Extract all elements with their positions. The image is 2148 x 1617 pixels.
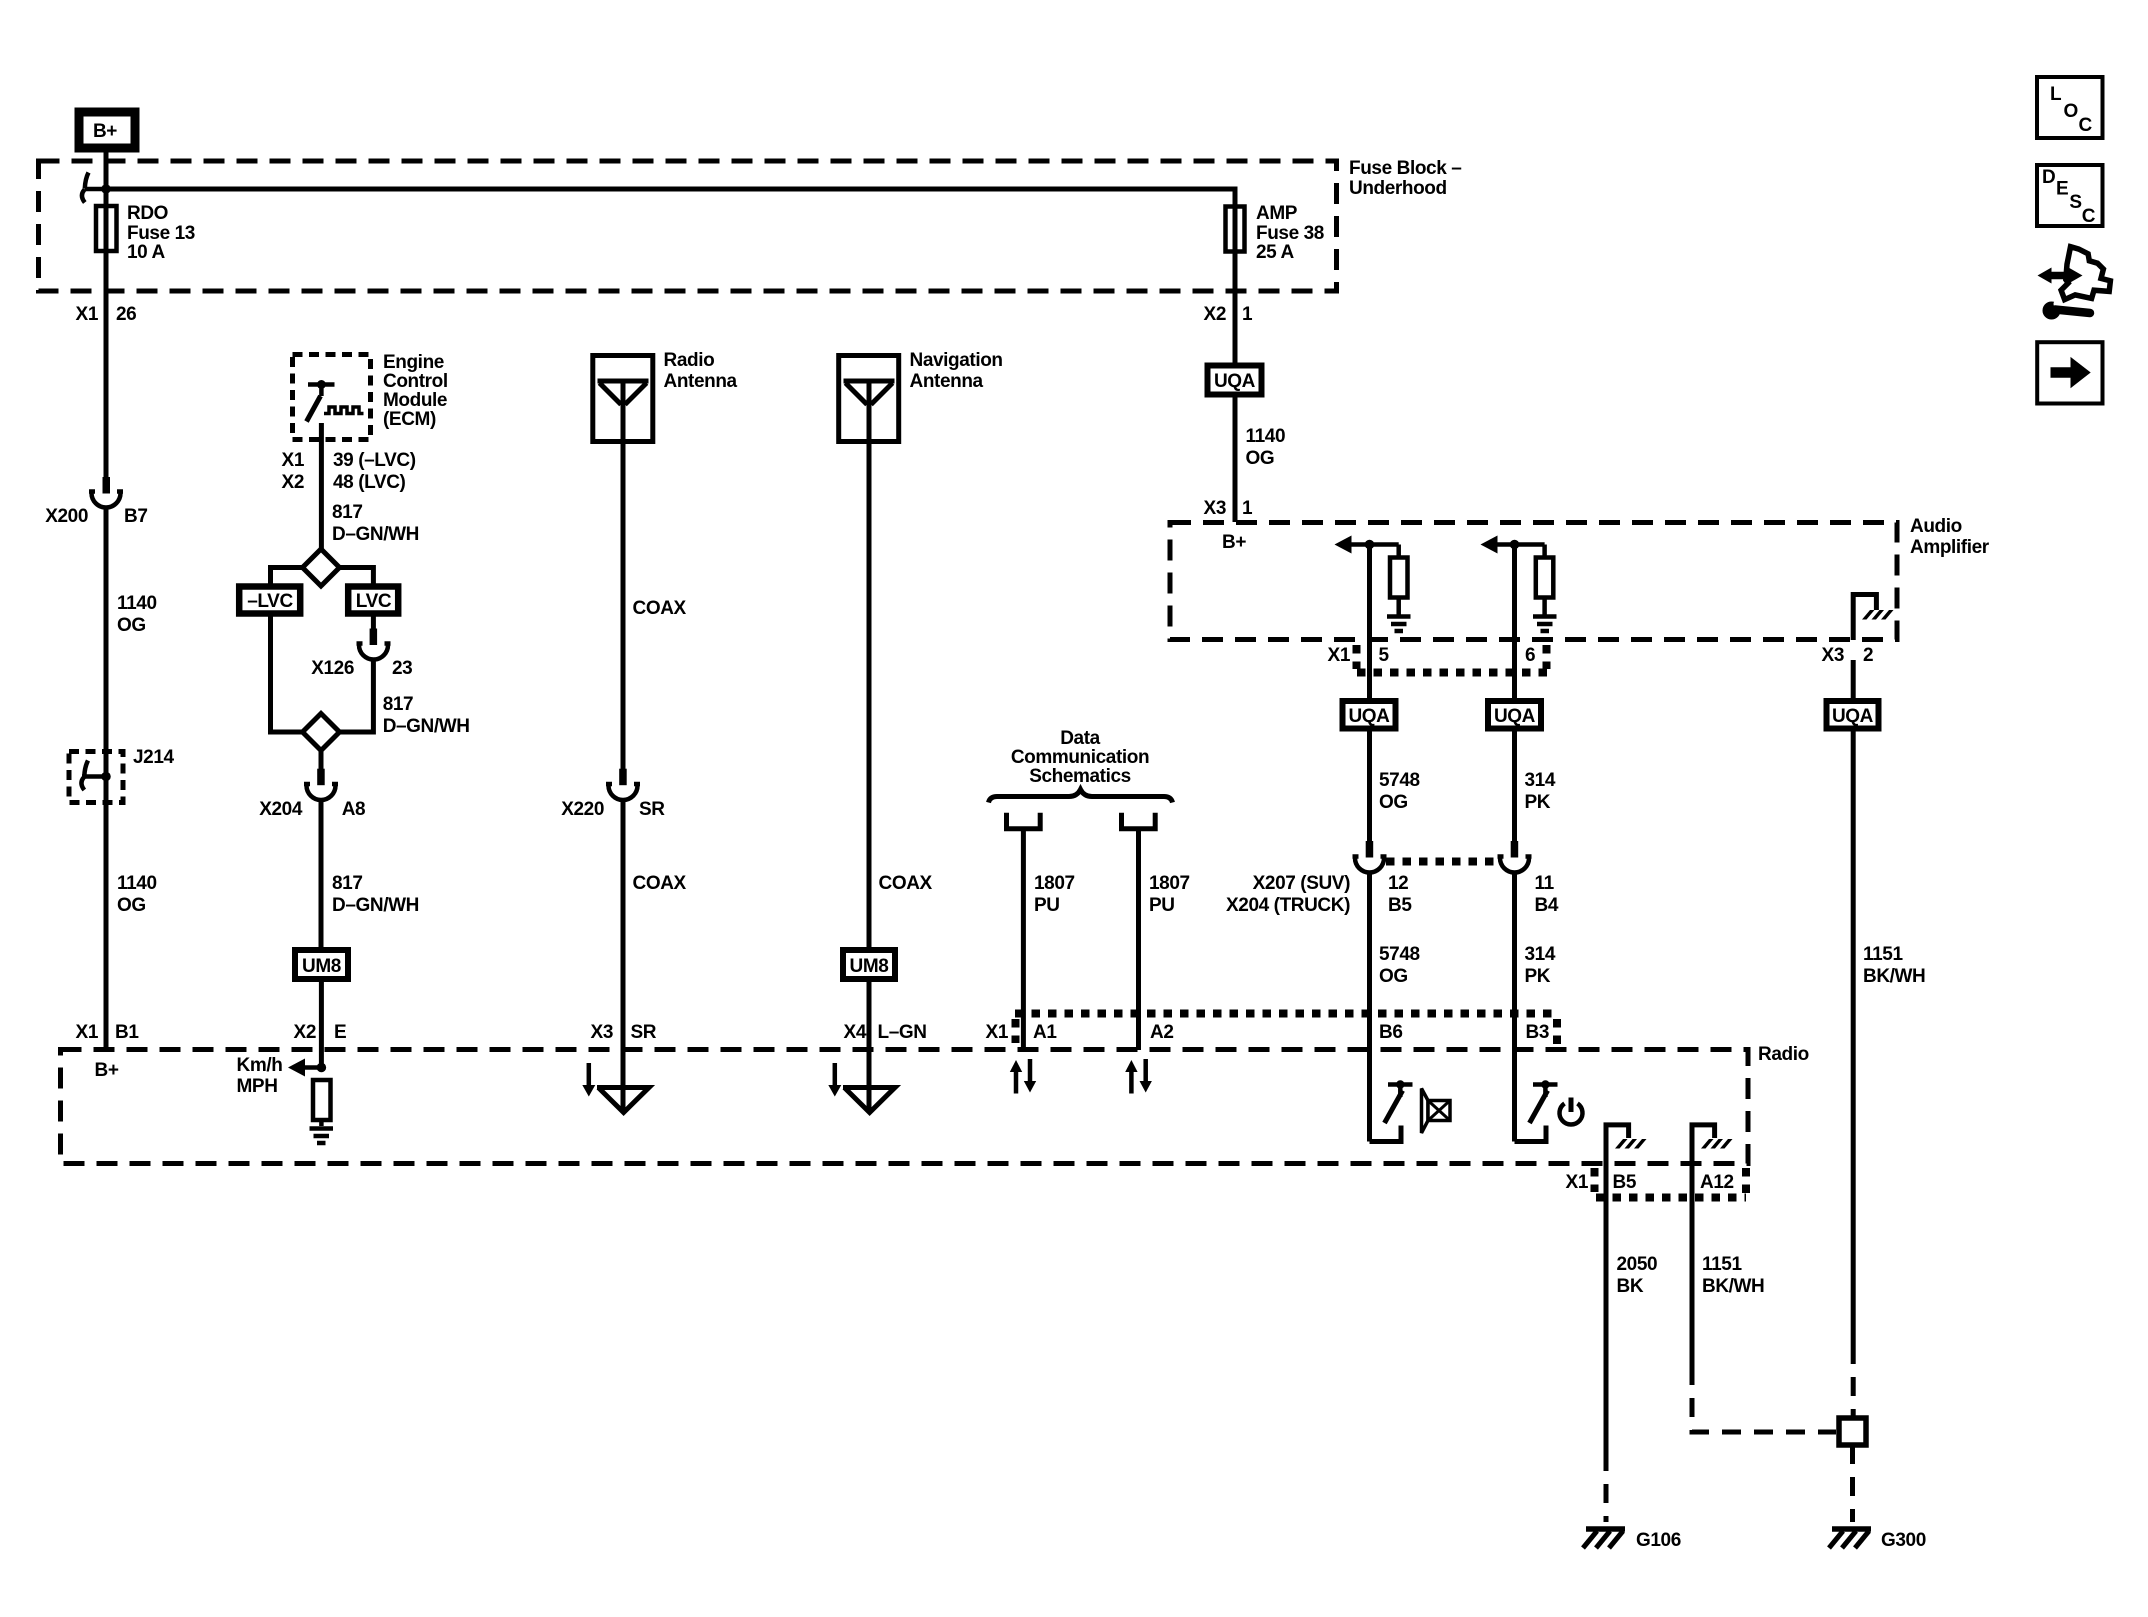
svg-text:X3: X3 bbox=[591, 1022, 613, 1043]
wire X126 to lower diamond bbox=[339, 660, 373, 733]
icon vehicle with arrow and wrench bbox=[2038, 247, 2111, 320]
svg-text:11: 11 bbox=[1535, 873, 1555, 894]
label Fuse Block - Underhood bbox=[1349, 158, 1461, 199]
amp output wire pin 6 down bbox=[1512, 545, 1517, 700]
svg-text:Schematics: Schematics bbox=[1029, 766, 1131, 787]
svg-text:1140: 1140 bbox=[1246, 426, 1286, 447]
wire UQA down to splice pack bbox=[1851, 732, 1856, 1420]
svg-text:O: O bbox=[2064, 101, 2078, 122]
svg-text:1807: 1807 bbox=[1149, 873, 1190, 894]
svg-text:L: L bbox=[2050, 84, 2062, 105]
label Navigation Antenna bbox=[910, 350, 1003, 392]
wire label 1807 PU (A2) bbox=[1149, 873, 1190, 916]
svg-text:J214: J214 bbox=[133, 747, 175, 768]
data link connector A2 (off-page) bbox=[1122, 813, 1156, 829]
option box -LVC bbox=[239, 587, 300, 614]
svg-text:Km/h: Km/h bbox=[237, 1055, 283, 1076]
svg-text:X1: X1 bbox=[76, 304, 99, 325]
ECM internal driver switch bbox=[307, 380, 364, 422]
svg-text:Fuse 13: Fuse 13 bbox=[127, 223, 195, 244]
icon box arrow (next page) bbox=[2037, 342, 2102, 403]
wire X2-1 fuse to UQA bbox=[1233, 250, 1238, 364]
label X126 23 bbox=[311, 658, 412, 679]
pin label X2 1 (fuse block output right) bbox=[1204, 304, 1253, 325]
radio mute switch (B6) bbox=[1370, 1080, 1413, 1141]
svg-text:UM8: UM8 bbox=[850, 956, 889, 977]
wire -LVC to lower diamond bbox=[271, 616, 304, 732]
svg-text:X200: X200 bbox=[45, 506, 88, 527]
connector X207/X204 (left pin 12) bbox=[1353, 841, 1387, 873]
svg-text:D: D bbox=[2042, 167, 2055, 188]
svg-text:1: 1 bbox=[1242, 498, 1253, 519]
splice pack junction block bbox=[1839, 1418, 1866, 1445]
splice diamond lower bbox=[303, 714, 340, 751]
wire resistor to ground left bbox=[1396, 598, 1401, 616]
wire label 817 D-GN/WH (below ECM) bbox=[332, 502, 419, 545]
option box UM8 (ECM branch) bbox=[295, 950, 348, 979]
speaker icon bbox=[1422, 1089, 1451, 1134]
arrow antenna signal (nav ant) bbox=[828, 1063, 841, 1097]
wire diamond to -LVC box bbox=[271, 568, 304, 585]
arrow vehicle speed output (left) bbox=[288, 1059, 326, 1077]
wire label 2050 BK bbox=[1617, 1254, 1658, 1297]
data arrows (A2) bbox=[1125, 1059, 1152, 1094]
splice diamond upper bbox=[303, 549, 340, 586]
option box UQA (speaker plus) bbox=[1488, 701, 1541, 729]
option box UQA (amp ground) bbox=[1827, 701, 1879, 729]
coax wire radio antenna to X220 bbox=[621, 444, 626, 769]
pin label X3 1 (amp) bbox=[1204, 498, 1253, 519]
svg-text:X207 (SUV): X207 (SUV) bbox=[1253, 873, 1350, 894]
svg-text:X1: X1 bbox=[282, 450, 305, 471]
junction node at bus bbox=[101, 184, 111, 194]
svg-text:B+: B+ bbox=[93, 121, 117, 142]
svg-text:1151: 1151 bbox=[1702, 1254, 1742, 1275]
radio bottom connector X1 dotted boundary bbox=[1595, 1168, 1747, 1198]
ground (radio internal) bbox=[310, 1129, 334, 1144]
wire label 817 D-GN/WH (above lower diamond) bbox=[383, 694, 470, 737]
splice arc at fuse block entry bbox=[82, 173, 106, 203]
svg-text:BK: BK bbox=[1617, 1276, 1644, 1297]
svg-text:E: E bbox=[334, 1022, 346, 1043]
connector X207/X204 (right pin 11) bbox=[1498, 841, 1532, 873]
svg-text:Antenna: Antenna bbox=[664, 371, 738, 392]
option box UM8 (nav branch) bbox=[843, 950, 895, 979]
svg-text:PK: PK bbox=[1525, 792, 1551, 813]
pin label 12 B5 bbox=[1388, 873, 1412, 916]
svg-text:6: 6 bbox=[1525, 645, 1535, 666]
wire X200 to J214 bbox=[104, 508, 109, 777]
svg-text:OG: OG bbox=[1246, 448, 1275, 469]
svg-text:D–GN/WH: D–GN/WH bbox=[332, 524, 419, 545]
wire label 1140 OG (lower left) bbox=[117, 873, 157, 916]
svg-text:Radio: Radio bbox=[664, 350, 715, 371]
svg-text:A1: A1 bbox=[1033, 1022, 1057, 1043]
svg-text:817: 817 bbox=[332, 502, 363, 523]
svg-text:PU: PU bbox=[1149, 895, 1175, 916]
wire resistor to ground right bbox=[1542, 598, 1547, 616]
wire B5 to G106 bbox=[1604, 1163, 1609, 1522]
svg-text:A12: A12 bbox=[1700, 1172, 1734, 1193]
svg-text:X2: X2 bbox=[282, 472, 304, 493]
connector X220 bbox=[606, 769, 640, 800]
wire X207 to radio pin B6 bbox=[1367, 873, 1372, 1142]
wire label 817 D-GN/WH (above UM8) bbox=[332, 873, 419, 916]
ground G300 bbox=[1829, 1529, 1871, 1548]
svg-text:G106: G106 bbox=[1636, 1530, 1681, 1551]
wire label 5748 OG (upper) bbox=[1379, 770, 1420, 813]
pin label 11 B4 bbox=[1535, 873, 1559, 916]
svg-text:2050: 2050 bbox=[1617, 1254, 1658, 1275]
svg-text:12: 12 bbox=[1388, 873, 1408, 894]
brace under data communication label bbox=[989, 790, 1173, 803]
data arrows (A1) bbox=[1010, 1059, 1036, 1094]
svg-text:1: 1 bbox=[1242, 304, 1253, 325]
svg-text:C: C bbox=[2082, 206, 2096, 227]
pin label X1 B5 A12 (radio bottom) bbox=[1566, 1172, 1734, 1193]
arrow antenna signal (radio ant) bbox=[582, 1063, 595, 1097]
radio antenna box bbox=[593, 356, 653, 445]
amp output wire pin 5 down bbox=[1367, 545, 1372, 700]
wire label 5748 OG (lower) bbox=[1379, 944, 1420, 987]
svg-text:OG: OG bbox=[117, 895, 146, 916]
svg-text:B1: B1 bbox=[115, 1022, 139, 1043]
fuse RDO Fuse 13 10A bbox=[96, 206, 117, 251]
wire amp X3-2 to UQA bbox=[1851, 660, 1856, 699]
svg-text:Radio: Radio bbox=[1758, 1044, 1809, 1065]
svg-text:X3: X3 bbox=[1822, 645, 1844, 666]
svg-text:26: 26 bbox=[116, 304, 136, 325]
wire ECM output down bbox=[319, 423, 324, 549]
wire data link A2 to radio bbox=[1136, 829, 1141, 1050]
svg-text:X4: X4 bbox=[844, 1022, 867, 1043]
pin label X1 5 (amp) bbox=[1328, 645, 1390, 666]
splice J214 bbox=[69, 752, 123, 803]
pin label X1 B1 (radio) bbox=[76, 1022, 140, 1043]
svg-text:AMP: AMP bbox=[1256, 203, 1298, 224]
svg-text:B5: B5 bbox=[1613, 1172, 1637, 1193]
amp internal load resistor right bbox=[1536, 558, 1554, 598]
svg-text:B4: B4 bbox=[1535, 895, 1559, 916]
svg-text:817: 817 bbox=[332, 873, 363, 894]
wire UQA to connector X207 (left) bbox=[1367, 732, 1372, 842]
option box UQA (speaker minus) bbox=[1343, 701, 1396, 729]
radio power switch (B3) bbox=[1515, 1080, 1558, 1141]
antenna sink symbol (nav ant) bbox=[843, 1088, 895, 1113]
pin label X3 2 (amp ground) bbox=[1822, 645, 1874, 666]
wire data link A1 to radio bbox=[1021, 829, 1026, 1050]
ground (amp internal left) bbox=[1387, 617, 1411, 632]
svg-text:B5: B5 bbox=[1388, 895, 1412, 916]
svg-text:X220: X220 bbox=[561, 799, 604, 820]
svg-text:PU: PU bbox=[1034, 895, 1060, 916]
svg-text:E: E bbox=[2056, 179, 2068, 200]
radio internal ground (B5) bbox=[1606, 1125, 1647, 1163]
svg-text:UQA: UQA bbox=[1348, 706, 1390, 727]
svg-text:B3: B3 bbox=[1526, 1022, 1550, 1043]
svg-text:314: 314 bbox=[1525, 770, 1556, 791]
label X204 A8 bbox=[259, 799, 365, 820]
svg-text:Data: Data bbox=[1060, 728, 1100, 749]
radio internal ground (A12) bbox=[1692, 1125, 1733, 1163]
wire label 1140 OG (upper left) bbox=[117, 593, 157, 636]
svg-text:–LVC: –LVC bbox=[247, 591, 293, 612]
svg-text:OG: OG bbox=[1379, 966, 1408, 987]
svg-text:LVC: LVC bbox=[356, 591, 392, 612]
svg-text:Fuse 38: Fuse 38 bbox=[1256, 223, 1324, 244]
wire diamond to LVC box bbox=[339, 568, 373, 585]
svg-text:A2: A2 bbox=[1150, 1022, 1174, 1043]
svg-text:B+: B+ bbox=[95, 1060, 119, 1081]
svg-text:L–GN: L–GN bbox=[878, 1022, 927, 1043]
svg-text:1140: 1140 bbox=[117, 593, 157, 614]
svg-text:COAX: COAX bbox=[633, 873, 687, 894]
wire label 314 PK (upper) bbox=[1525, 770, 1556, 813]
coax wire X220 to radio bbox=[621, 800, 626, 1113]
svg-text:OG: OG bbox=[1379, 792, 1408, 813]
wire LVC to connector X126 bbox=[371, 616, 376, 629]
svg-text:(ECM): (ECM) bbox=[383, 409, 436, 430]
svg-text:Audio: Audio bbox=[1910, 516, 1962, 537]
svg-text:BK/WH: BK/WH bbox=[1702, 1276, 1764, 1297]
svg-text:UQA: UQA bbox=[1214, 371, 1256, 392]
option box UQA (amp feed) bbox=[1208, 366, 1262, 395]
svg-text:1151: 1151 bbox=[1863, 944, 1903, 965]
connector X126 bbox=[357, 629, 391, 660]
svg-text:COAX: COAX bbox=[879, 873, 933, 894]
svg-text:UM8: UM8 bbox=[302, 956, 341, 977]
pin label X1 A1 (radio) bbox=[986, 1022, 1058, 1043]
svg-text:2: 2 bbox=[1863, 645, 1873, 666]
wire diamond to connector X204 bbox=[319, 751, 324, 770]
svg-text:39 (–LVC): 39 (–LVC) bbox=[333, 450, 416, 471]
amp connector X1 dotted boundary bbox=[1357, 645, 1549, 673]
label Radio Antenna bbox=[664, 350, 738, 392]
svg-text:X1: X1 bbox=[986, 1022, 1009, 1043]
label RDO Fuse 13 10 A bbox=[127, 203, 195, 263]
icon box LOC bbox=[2037, 77, 2103, 138]
svg-text:B7: B7 bbox=[124, 506, 148, 527]
wire UQA to connector X207 (right) bbox=[1512, 732, 1517, 842]
wire label 1807 PU (A1) bbox=[1034, 873, 1075, 916]
pin label X2 E (radio) bbox=[294, 1022, 347, 1043]
connector in-line dotted link bbox=[1386, 858, 1499, 866]
svg-text:X3: X3 bbox=[1204, 498, 1226, 519]
horizontal bus wire to AMP fuse bbox=[106, 189, 1235, 206]
svg-text:BK/WH: BK/WH bbox=[1863, 966, 1925, 987]
fuse AMP Fuse 38 25A bbox=[1226, 207, 1245, 252]
connector X200 bbox=[89, 477, 123, 508]
svg-text:Underhood: Underhood bbox=[1349, 178, 1447, 199]
label X207 (SUV) X204 (TRUCK) bbox=[1226, 873, 1350, 916]
engine control module (ECM) box bbox=[293, 355, 371, 440]
svg-text:Communication: Communication bbox=[1011, 747, 1149, 768]
svg-text:B6: B6 bbox=[1379, 1022, 1403, 1043]
coax wire navigation antenna to radio bbox=[867, 444, 872, 948]
svg-text:Fuse Block –: Fuse Block – bbox=[1349, 158, 1461, 179]
data link connector A1 (off-page) bbox=[1007, 813, 1041, 829]
audio amplifier box bbox=[1170, 523, 1897, 640]
radio internal resistor bbox=[313, 1080, 331, 1120]
wire label 1140 OG (amp feed) bbox=[1246, 426, 1286, 469]
svg-text:X1: X1 bbox=[1566, 1172, 1589, 1193]
svg-text:Antenna: Antenna bbox=[910, 371, 984, 392]
svg-text:10 A: 10 A bbox=[127, 242, 166, 263]
svg-text:X2: X2 bbox=[1204, 304, 1226, 325]
power terminal B+ bbox=[79, 112, 135, 148]
amp output branch right (pin 6) bbox=[1481, 536, 1545, 559]
label Data Communication Schematics bbox=[1011, 728, 1149, 787]
radio connector X1 dotted boundary bbox=[1015, 1014, 1557, 1047]
svg-text:X204 (TRUCK): X204 (TRUCK) bbox=[1226, 895, 1350, 916]
svg-text:48 (LVC): 48 (LVC) bbox=[333, 472, 406, 493]
svg-text:SR: SR bbox=[631, 1022, 657, 1043]
label Km/h MPH bbox=[237, 1055, 283, 1097]
svg-text:5748: 5748 bbox=[1379, 944, 1420, 965]
connector X204 bbox=[304, 769, 338, 800]
svg-text:COAX: COAX bbox=[633, 598, 687, 619]
wire B+ down to fuse RDO bbox=[104, 148, 109, 206]
label X200 B7 bbox=[45, 506, 147, 527]
svg-text:S: S bbox=[2069, 192, 2081, 213]
wire X207 to radio pin B3 bbox=[1512, 873, 1517, 1142]
svg-text:23: 23 bbox=[392, 658, 412, 679]
wire X204 to UM8 bbox=[319, 800, 324, 948]
wire UQA to amp pin B+ bbox=[1233, 397, 1238, 522]
svg-text:C: C bbox=[2079, 115, 2093, 136]
label X220 SR bbox=[561, 799, 665, 820]
ground (amp internal right) bbox=[1533, 617, 1557, 632]
svg-text:Control: Control bbox=[383, 371, 448, 392]
wire UM8 to radio pin E bbox=[319, 982, 324, 1068]
svg-text:D–GN/WH: D–GN/WH bbox=[383, 716, 470, 737]
power icon bbox=[1560, 1098, 1583, 1125]
ground G106 bbox=[1583, 1529, 1625, 1548]
pin label X4 L-GN (radio) bbox=[844, 1022, 927, 1043]
svg-text:SR: SR bbox=[639, 799, 665, 820]
antenna sink symbol (radio ant) bbox=[597, 1088, 649, 1113]
svg-text:5748: 5748 bbox=[1379, 770, 1420, 791]
amp internal ground branch (pin X3-2) bbox=[1853, 595, 1893, 641]
svg-text:UQA: UQA bbox=[1832, 706, 1874, 727]
svg-text:1140: 1140 bbox=[117, 873, 157, 894]
radio box bbox=[61, 1050, 1749, 1164]
wire label 1151 BK/WH (radio ground) bbox=[1702, 1254, 1764, 1297]
svg-text:Amplifier: Amplifier bbox=[1910, 537, 1990, 558]
svg-text:Navigation: Navigation bbox=[910, 350, 1003, 371]
amp internal load resistor left bbox=[1390, 558, 1408, 598]
svg-text:B+: B+ bbox=[1222, 532, 1246, 553]
svg-text:X1: X1 bbox=[76, 1022, 99, 1043]
svg-text:Engine: Engine bbox=[383, 352, 444, 373]
svg-text:OG: OG bbox=[117, 615, 146, 636]
svg-text:X1: X1 bbox=[1328, 645, 1351, 666]
fuse block - underhood box bbox=[39, 161, 1337, 291]
pin label X1 26 (fuse block output left) bbox=[76, 304, 137, 325]
svg-text:25 A: 25 A bbox=[1256, 242, 1295, 263]
svg-text:5: 5 bbox=[1379, 645, 1390, 666]
wire UM8 to radio pin L-GN bbox=[867, 982, 872, 1113]
amp output branch left (pin 5) bbox=[1335, 536, 1399, 559]
svg-text:X126: X126 bbox=[311, 658, 354, 679]
svg-text:RDO: RDO bbox=[127, 203, 168, 224]
wire label 1151 BK/WH (amp ground) bbox=[1863, 944, 1925, 987]
wire label 314 PK (lower) bbox=[1525, 944, 1556, 987]
pin label X3 SR (radio) bbox=[591, 1022, 657, 1043]
label Audio Amplifier bbox=[1910, 516, 1990, 558]
svg-text:UQA: UQA bbox=[1494, 706, 1536, 727]
svg-text:PK: PK bbox=[1525, 966, 1551, 987]
navigation antenna box bbox=[839, 356, 899, 445]
svg-text:817: 817 bbox=[383, 694, 414, 715]
svg-text:1807: 1807 bbox=[1034, 873, 1075, 894]
svg-text:G300: G300 bbox=[1881, 1530, 1926, 1551]
svg-text:314: 314 bbox=[1525, 944, 1556, 965]
label AMP Fuse 38 25 A bbox=[1256, 203, 1324, 263]
pin labels X1 39 (-LVC) / X2 48 (LVC) bbox=[282, 450, 416, 493]
wire J214 to radio pin B1 bbox=[104, 777, 109, 1051]
svg-text:MPH: MPH bbox=[237, 1076, 278, 1097]
icon box DESC bbox=[2037, 165, 2103, 227]
wire resistor to ground (radio) bbox=[319, 1120, 324, 1126]
svg-text:D–GN/WH: D–GN/WH bbox=[332, 895, 419, 916]
wire A12 to splice pack bbox=[1692, 1163, 1836, 1432]
wire splice pack to G300 bbox=[1850, 1445, 1855, 1522]
label Engine Control Module (ECM) bbox=[383, 352, 448, 430]
wire fuse RDO to connector X200 bbox=[104, 252, 109, 478]
option box LVC bbox=[348, 587, 398, 614]
svg-text:X2: X2 bbox=[294, 1022, 316, 1043]
svg-text:Module: Module bbox=[383, 390, 447, 411]
svg-text:A8: A8 bbox=[342, 799, 366, 820]
svg-text:X204: X204 bbox=[259, 799, 303, 820]
